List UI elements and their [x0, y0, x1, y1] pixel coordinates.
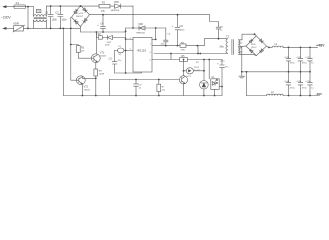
svg-text:U1: U1 [211, 76, 215, 79]
capacitor C8 [210, 15, 221, 39]
svg-text:4k7: 4k7 [81, 50, 85, 52]
optocoupler U1 [211, 79, 219, 90]
svg-text:+C14: +C14 [284, 81, 290, 83]
component Z1 [117, 48, 124, 53]
svg-text:6: 6 [150, 52, 152, 54]
capacitor C15 [298, 72, 303, 96]
capacitor C6 [164, 28, 168, 46]
wire gnd mid rail [242, 71, 310, 73]
svg-text:VT3: VT3 [187, 76, 192, 78]
svg-text:R7: R7 [162, 86, 166, 88]
terminal input N [6, 27, 14, 29]
bridge rectifier VD1-VD4 [72, 6, 90, 27]
svg-text:+C16: +C16 [305, 81, 311, 83]
svg-text:+: + [172, 25, 174, 28]
svg-text:1R: 1R [118, 54, 121, 56]
svg-text:100n: 100n [52, 18, 58, 21]
svg-text:1u: 1u [220, 30, 222, 32]
wire Vcc rail [125, 28, 127, 73]
svg-text:2k2: 2k2 [162, 89, 166, 91]
wire bottom bus [63, 95, 222, 97]
transistor VT3 [179, 76, 187, 84]
svg-text:+C12: +C12 [296, 57, 302, 59]
svg-text:47u: 47u [118, 60, 122, 62]
inductor L2 [266, 94, 283, 95]
capacitor C4 [101, 15, 106, 32]
transistor VT1 [91, 54, 100, 63]
svg-text:C8: C8 [220, 26, 224, 28]
resistor R4 [180, 44, 186, 47]
svg-text:470u: 470u [302, 62, 308, 64]
svg-text:8w: 8w [240, 51, 243, 53]
wire IC ground [115, 72, 142, 73]
diode VD6 [139, 26, 145, 30]
wire R2 row [96, 32, 125, 38]
wire feedback bus [109, 79, 179, 81]
svg-text:+C10: +C10 [220, 61, 226, 63]
svg-text:470u: 470u [290, 62, 296, 64]
svg-text:HER108: HER108 [111, 10, 120, 12]
diode VD5 [115, 4, 121, 8]
svg-text:-48V: -48V [316, 92, 322, 96]
pin 2 wire [115, 50, 133, 52]
fuse F1 [14, 5, 26, 9]
resistor R7 [158, 80, 160, 96]
wire pin8 drop [152, 28, 156, 39]
inductor L1 [269, 46, 272, 48]
svg-text:+C13: +C13 [305, 57, 311, 59]
svg-text:RS207: RS207 [76, 16, 83, 18]
svg-text:VD11: VD11 [194, 67, 200, 69]
capacitor C9 [134, 80, 139, 96]
pin5 row wire [152, 54, 222, 60]
resistor R5 [180, 58, 188, 62]
svg-text:1u: 1u [311, 87, 314, 89]
wire minus bus [81, 31, 126, 33]
svg-text:470u: 470u [290, 87, 296, 89]
svg-text:L2: L2 [271, 91, 274, 94]
svg-text:VD9-: VD9- [251, 44, 256, 46]
wire left rail [62, 28, 64, 95]
wire -48V bus [247, 95, 320, 97]
svg-text:+C15: +C15 [296, 81, 302, 83]
wire to primary top [204, 39, 227, 46]
resistor R8 [95, 63, 97, 96]
node output LC [268, 47, 270, 49]
wire +48V rail [283, 46, 317, 48]
pin7 row wire [152, 45, 204, 47]
svg-text:L1: L1 [275, 43, 278, 46]
wire feedback bus left drop [108, 80, 110, 96]
svg-text:+C11: +C11 [284, 57, 290, 59]
capacitor C16 [308, 72, 313, 96]
svg-text:VT2: VT2 [84, 86, 89, 89]
svg-text:C4: C4 [100, 23, 104, 26]
svg-text:1u: 1u [311, 62, 314, 64]
wire secondary top to bridge [242, 34, 256, 40]
wire bridge bottom to minus bus [80, 27, 82, 33]
wire +310V bus [90, 14, 210, 16]
svg-text:C5: C5 [180, 25, 184, 28]
capacitor C10 [220, 60, 225, 96]
diode VD11 [186, 68, 193, 74]
node VD6/pin8 [155, 27, 157, 29]
terminal input L [6, 6, 14, 8]
svg-text:C3: C3 [109, 58, 113, 61]
label T1 [36, 10, 41, 13]
wire bootstrap row [126, 27, 166, 29]
svg-text:7: 7 [150, 44, 152, 46]
svg-text:C1: C1 [45, 11, 49, 15]
wire VDR vertical [27, 7, 29, 29]
capacitor C12 [298, 47, 303, 71]
svg-text:HER108: HER108 [136, 33, 145, 35]
varistor VDR [14, 26, 24, 31]
svg-text:R3: R3 [81, 46, 85, 49]
svg-text:5: 5 [150, 59, 152, 61]
capacitor C3 [112, 51, 117, 74]
svg-text:100n: 100n [61, 18, 67, 21]
wire secondary top [239, 39, 243, 41]
resistor R1 [99, 4, 110, 8]
wire secondary centre tap [239, 46, 247, 72]
wire [26, 6, 34, 8]
wire neutral bus [24, 27, 81, 29]
svg-text:~230V: ~230V [1, 16, 12, 20]
wire zener cluster [184, 46, 210, 81]
svg-text:C9: C9 [139, 84, 143, 86]
svg-text:470u: 470u [302, 87, 308, 89]
svg-text:+48V: +48V [316, 44, 325, 48]
svg-text:T2: T2 [226, 35, 230, 39]
capacitor C11 [286, 47, 291, 71]
diode VD8 [108, 35, 113, 39]
IC U1 IR2153 [133, 38, 152, 73]
svg-text:VD12: VD12 [251, 47, 257, 49]
svg-text:VD1-VD4: VD1-VD4 [74, 13, 84, 15]
svg-text:13003: 13003 [100, 55, 107, 57]
svg-text:100n: 100n [180, 30, 186, 32]
node bridge top [80, 5, 82, 7]
bridge rectifier VD9-VD12 [246, 36, 267, 56]
wire secondary bottom [239, 54, 257, 55]
wire top bus after choke [47, 5, 100, 7]
transistor U2 TL431 [200, 81, 209, 90]
resistor R3 [71, 45, 79, 59]
wire bridge right to LC [267, 46, 269, 47]
node neutral/VDR [27, 28, 29, 30]
svg-text:13003: 13003 [84, 90, 91, 92]
svg-text:47R: 47R [181, 49, 185, 51]
node rail top [125, 30, 127, 32]
svg-text:30w: 30w [219, 46, 224, 49]
svg-text:VD8: VD8 [107, 42, 112, 44]
wire VD5 drop [132, 6, 134, 28]
svg-text:C6: C6 [167, 34, 171, 36]
svg-text:VT1: VT1 [100, 51, 105, 54]
svg-text:47k: 47k [101, 10, 106, 13]
transistor VT2 [76, 76, 85, 85]
svg-text:47u: 47u [225, 66, 229, 68]
pin6 row wire [154, 53, 228, 55]
choke T1 [33, 7, 35, 17]
svg-text:R7: R7 [196, 62, 200, 64]
svg-text:VDR: VDR [13, 22, 19, 26]
svg-text:+: + [217, 63, 219, 66]
capacitor C14 [286, 72, 291, 96]
svg-text:1n: 1n [139, 87, 142, 89]
svg-text:8w: 8w [240, 43, 243, 45]
svg-text:4148: 4148 [105, 45, 110, 47]
svg-text:VD6: VD6 [138, 23, 143, 26]
capacitor C5 [175, 15, 180, 46]
svg-text:R1: R1 [102, 0, 106, 4]
wire minus rail drop [246, 72, 248, 96]
node fuse/VDR junction [27, 6, 29, 8]
wire opto bottom [214, 89, 216, 95]
ground [239, 72, 245, 78]
svg-text:VD5: VD5 [114, 1, 119, 4]
resistor R2 [98, 36, 102, 40]
svg-text:IR2153: IR2153 [137, 48, 146, 52]
capacitor C1 [48, 6, 53, 28]
capacitor C2 [58, 6, 63, 28]
svg-text:+: + [97, 24, 99, 27]
svg-text:F1: F1 [16, 1, 20, 5]
svg-text:100R: 100R [99, 74, 105, 76]
node VT1 collector on minus bus [96, 31, 98, 33]
capacitor C13 [308, 47, 313, 71]
svg-text:C2: C2 [55, 11, 59, 15]
wire bridge left leg [70, 17, 72, 80]
svg-text:R8: R8 [99, 71, 103, 73]
